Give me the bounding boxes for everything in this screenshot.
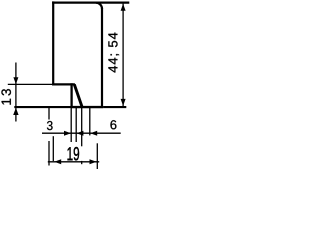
profile left edge — [52, 1, 54, 85]
extension line x97.3 — [96, 143, 98, 169]
profile rounded corner top-right — [96, 3, 102, 9]
dimension line 44;54 — [122, 4, 124, 107]
profile top edge with extension line — [52, 2, 129, 4]
arrowhead 19 left pointing left — [54, 159, 61, 164]
bottom extension line left — [14, 106, 70, 108]
profile groove left edge bar — [70, 83, 72, 108]
label 13 rotated — [1, 89, 10, 104]
label 6 — [110, 120, 116, 129]
dimension line 3 and 6 row — [42, 132, 121, 134]
extension line x89.8 — [89, 108, 91, 135]
profile right edge — [101, 8, 103, 108]
label 44; 54 rotated — [108, 33, 119, 73]
arrowhead 3 left pointing right — [64, 131, 71, 136]
step extension line left — [8, 83, 52, 85]
dimension line 13 — [15, 63, 17, 122]
extension line x49 upper segment — [48, 108, 50, 120]
arrowhead 3 right pointing left — [76, 131, 83, 136]
extension line x81.7 upper segment — [81, 108, 83, 146]
profile chamfer diagonal — [74, 84, 82, 106]
arrowhead 44;54 top pointing up — [121, 4, 126, 11]
label 3 — [47, 121, 53, 130]
arrowhead 6 pointing left — [90, 131, 97, 136]
bottom extension line right — [103, 106, 126, 108]
arrowhead 13 top pointing down — [13, 77, 18, 84]
arrowhead 13 bottom pointing up — [13, 108, 18, 115]
extension line x49 lower segment — [48, 141, 50, 166]
extension line x71.2 below groove bar — [70, 108, 72, 142]
extension line x81.7 lower segment — [81, 161, 83, 164]
arrowhead 44;54 bottom pointing down — [121, 99, 126, 106]
label 19 — [67, 147, 79, 160]
extension line x76.2 — [75, 108, 77, 142]
arrowhead 19 right pointing right — [90, 159, 97, 164]
extension line x53.3 left edge extended — [52, 136, 54, 161]
profile step edge (rebate shoulder) — [52, 83, 75, 85]
dimension line 19 — [48, 161, 99, 163]
profile bottom edge — [71, 106, 104, 108]
